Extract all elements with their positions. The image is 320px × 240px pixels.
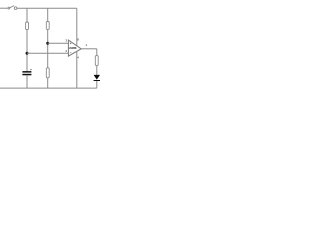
wire top rail [17,7,77,9]
capacitor C1 polarity mark [30,68,32,71]
resistor R2 [46,22,49,30]
wire op-amp pin 4 to ground rail [76,51,78,88]
diode D1 cathode bar [94,80,100,81]
wire bottom ground rail [0,87,97,89]
wire diode bottom lead [96,81,98,88]
wire R1 bottom to capacitor [26,30,28,72]
wire V+ vertical drop to op-amp pin 8 [76,8,78,46]
wire top rail left stub [0,7,8,9]
node B junction dot [26,52,29,55]
resistor R1 [26,22,29,30]
capacitor C1 plates [22,71,31,73]
wire R3 bottom lead [47,78,49,88]
wire R2 bottom through node A to R3 [47,29,49,68]
svg-text:LM358: LM358 [69,46,77,50]
wire R1 top lead [26,8,28,22]
wire non-inverting input (node A to op-amp +) [48,42,69,44]
wire output corner down to R4 [96,49,98,56]
op-amp U1 plus mark [70,43,72,45]
op-amp U1 minus mark [70,52,72,54]
wire inverting input (node B to op-amp -) [27,52,68,54]
switch S1 [8,6,17,10]
wire output from apex [81,48,97,50]
wire capacitor bottom lead [26,75,28,88]
resistor R3 [46,68,49,78]
diode D1 (LED) triangle [94,75,100,80]
node A junction dot [46,42,49,45]
op-amp U1 triangle [68,40,81,56]
resistor R4 [95,56,98,66]
wire R4 to diode [96,66,98,75]
wire R2 top lead [47,8,49,22]
